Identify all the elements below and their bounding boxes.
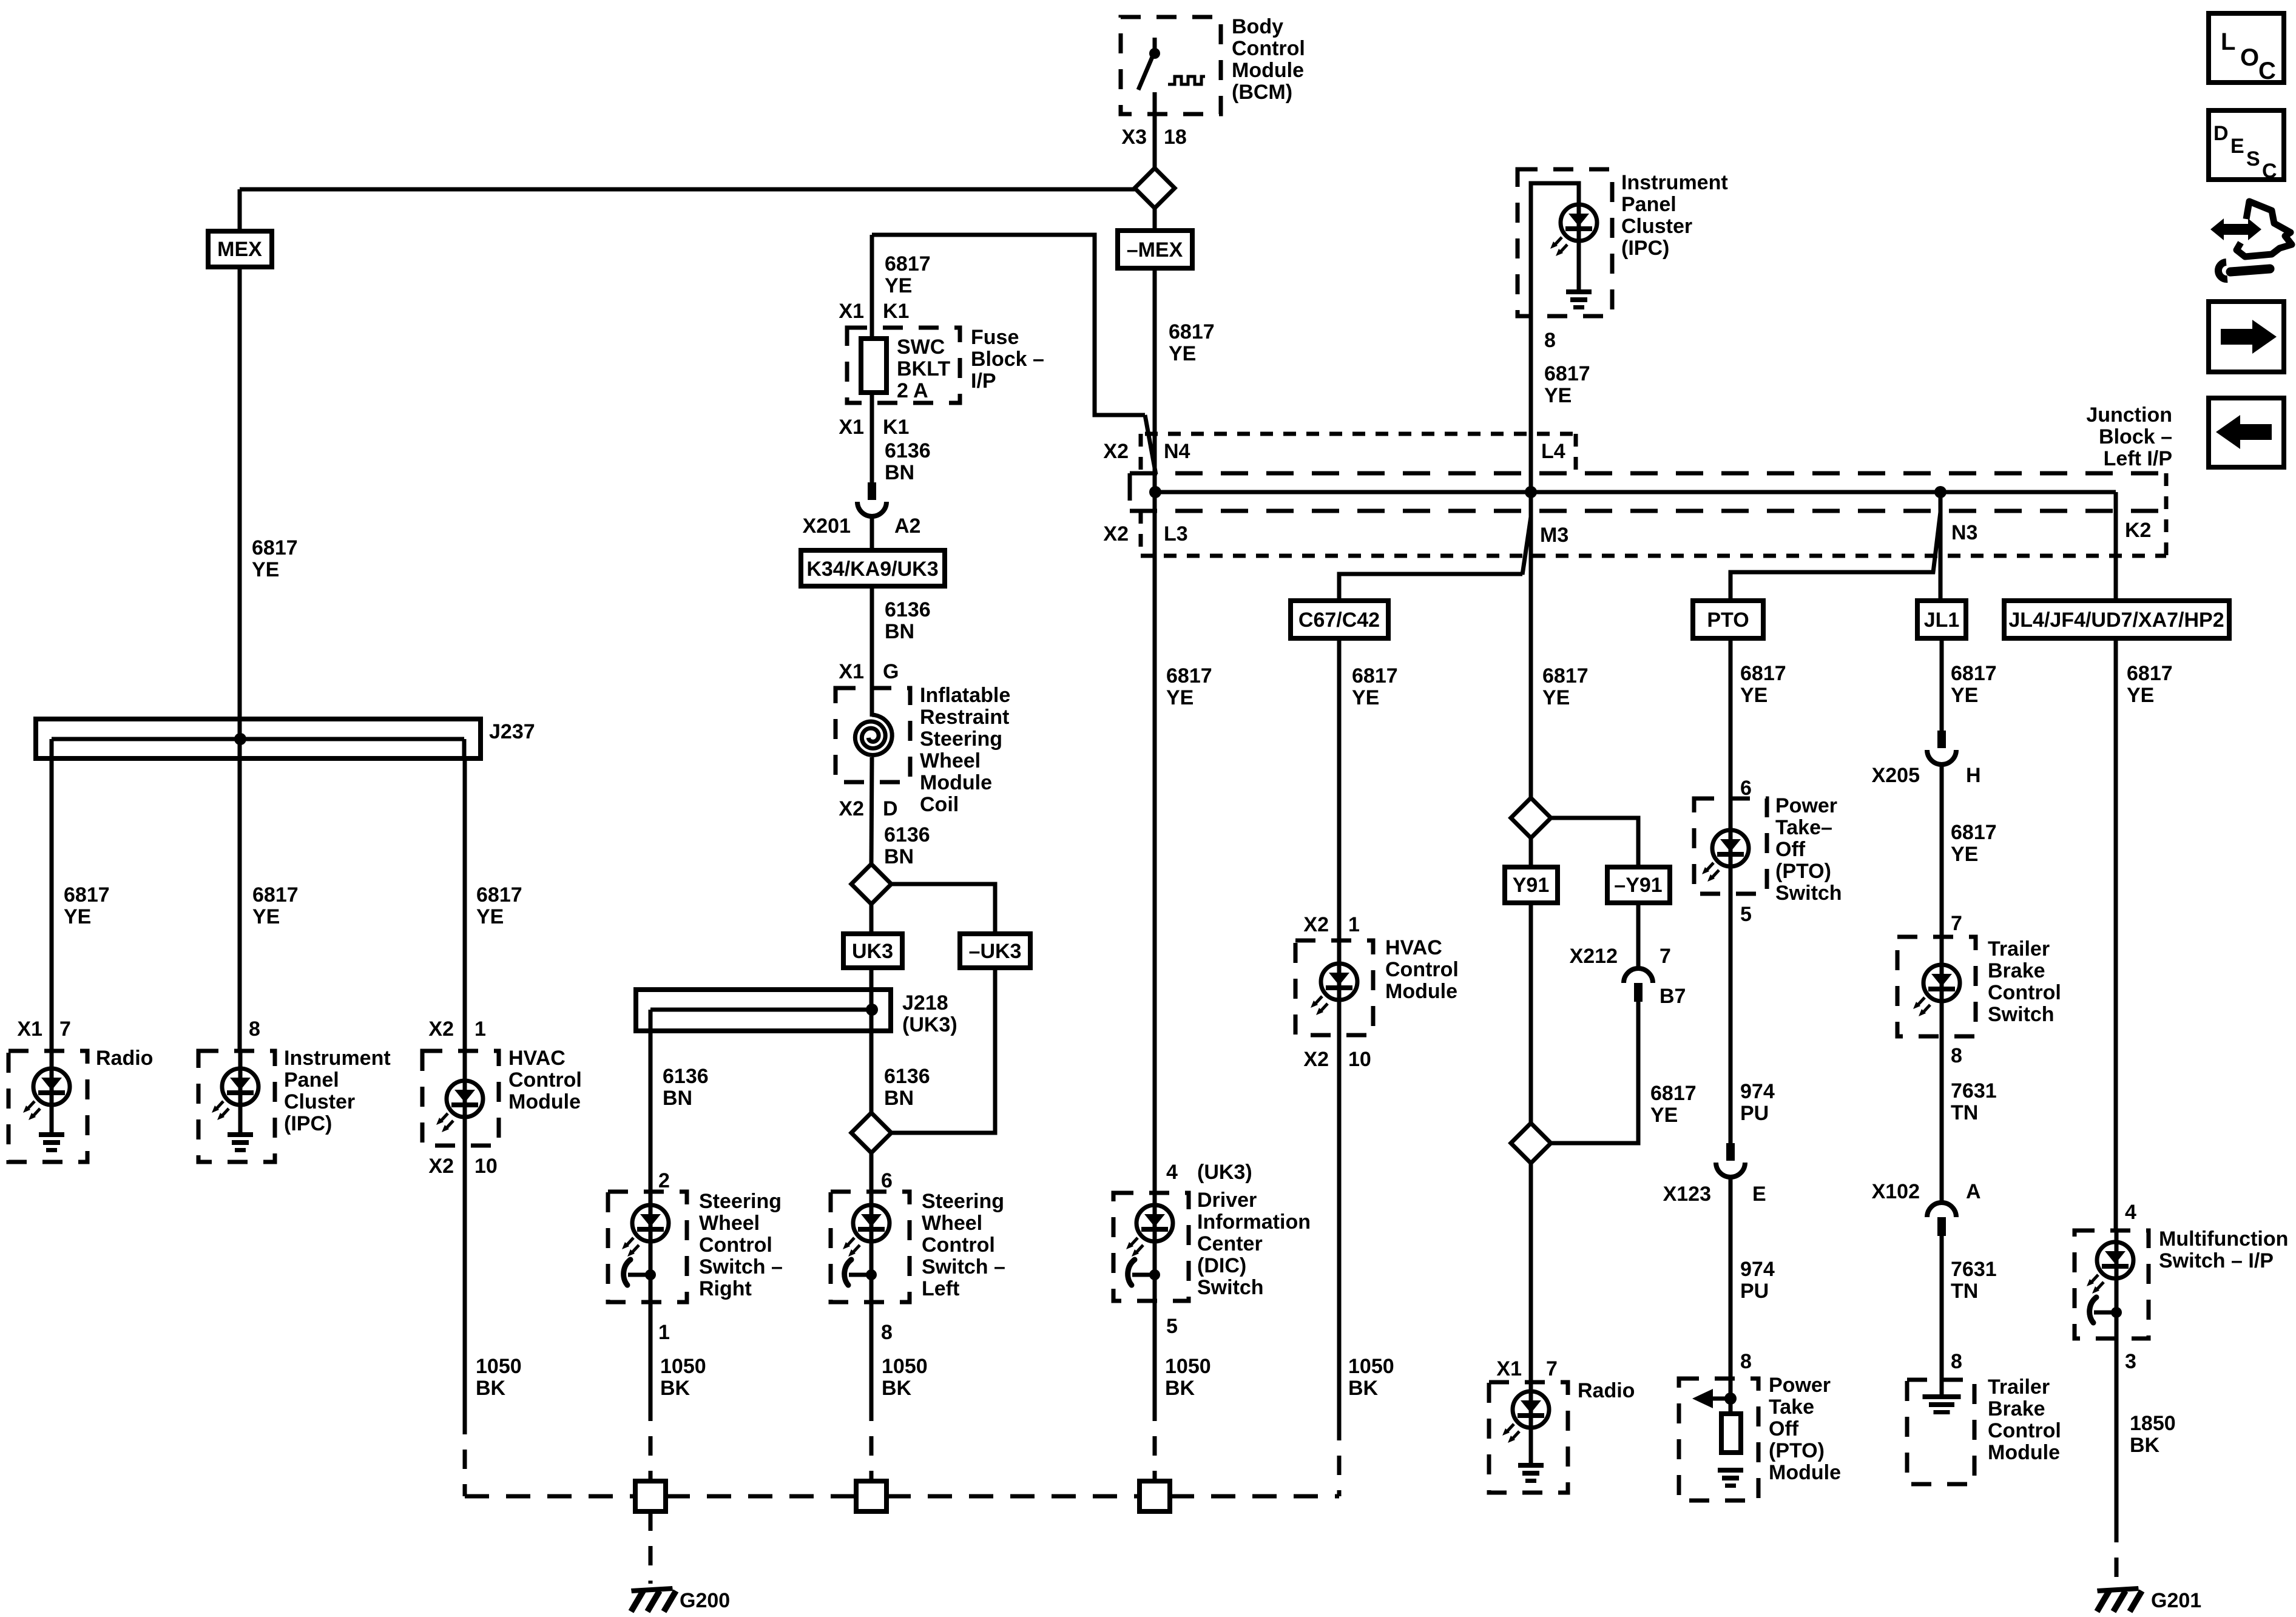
- svg-text:X212: X212: [1570, 945, 1618, 968]
- svg-text:1050: 1050: [1165, 1355, 1211, 1378]
- signal ground PTO module: [1718, 1468, 1743, 1488]
- svg-text:Information: Information: [1197, 1210, 1311, 1234]
- component box HVAC control module center dashed: [1295, 940, 1373, 1035]
- svg-text:N4: N4: [1164, 440, 1190, 463]
- svg-text:K1: K1: [883, 416, 909, 439]
- wire: Y91 diamond through Y91 tag to lower diamond: [1529, 838, 1533, 1123]
- svg-text:Take: Take: [1769, 1396, 1814, 1419]
- tag box -UK3: [960, 934, 1030, 968]
- svg-text:6817: 6817: [1951, 662, 1997, 685]
- svg-text:7: 7: [59, 1018, 71, 1041]
- svg-text:C: C: [2258, 58, 2276, 84]
- junction block X2 separator bottom row: [1139, 511, 1143, 556]
- splice J237 junction dot: [234, 733, 246, 745]
- svg-text:Switch –: Switch –: [699, 1255, 783, 1278]
- wire: X123 to PTO module: [1729, 1177, 1733, 1414]
- svg-text:–MEX: –MEX: [1127, 238, 1183, 262]
- svg-text:YE: YE: [1650, 1104, 1678, 1127]
- wire: dashed ground drop DIC: [1153, 1402, 1157, 1481]
- svg-text:B7: B7: [1660, 985, 1686, 1008]
- wire: diagonal entry into junction block pin N4: [1145, 415, 1156, 474]
- svg-text:10: 10: [1348, 1048, 1371, 1071]
- svg-text:Power: Power: [1775, 794, 1837, 817]
- tag box MEX: [208, 231, 272, 267]
- svg-text:(UK3): (UK3): [902, 1013, 957, 1036]
- svg-text:8: 8: [1740, 1350, 1752, 1373]
- svg-text:8: 8: [881, 1321, 893, 1344]
- svg-text:BN: BN: [885, 620, 914, 643]
- svg-text:YE: YE: [885, 274, 912, 297]
- svg-text:X2: X2: [1303, 1048, 1329, 1071]
- splice square on ground bus below DIC: [1140, 1481, 1170, 1511]
- svg-text:YE: YE: [1169, 342, 1196, 365]
- svg-text:UK3: UK3: [852, 940, 893, 963]
- wire: M3 exit diagonal to C67 feeder: [1339, 517, 1531, 601]
- svg-text:(UK3): (UK3): [1197, 1161, 1252, 1184]
- svg-text:974: 974: [1740, 1080, 1775, 1103]
- svg-text:YE: YE: [1166, 686, 1194, 709]
- diamond connector below BCM: [1135, 168, 1175, 208]
- svg-text:Power: Power: [1769, 1374, 1831, 1397]
- svg-text:(IPC): (IPC): [1621, 237, 1669, 260]
- component box Radio left dashed: [8, 1051, 87, 1162]
- svg-text:J237: J237: [489, 720, 535, 743]
- wire: MEX column down to J237 and Radio/IPC/HVAC bus: [238, 189, 242, 1051]
- wire: J237 middle output to IPC: [238, 1051, 243, 1133]
- tag box C67/C42: [1291, 601, 1388, 638]
- svg-text:Steering: Steering: [922, 1190, 1004, 1213]
- svg-text:YE: YE: [1951, 684, 1978, 707]
- svg-text:X2: X2: [839, 797, 864, 820]
- wire: JL4 column down through multifunction switch: [2115, 1230, 2119, 1523]
- wire: M3 column down to Y91 diamond: [1529, 492, 1533, 798]
- signal ground IPC left: [228, 1132, 253, 1152]
- svg-text:TN: TN: [1951, 1280, 1978, 1303]
- wire: dashed drop below G200 splice: [649, 1511, 653, 1584]
- wire: UK3 column diamond to SWCS-Left column bottom: [869, 904, 874, 1402]
- svg-text:YE: YE: [1544, 384, 1572, 407]
- svg-text:Fuse: Fuse: [971, 326, 1019, 349]
- svg-text:MEX: MEX: [217, 238, 262, 261]
- wire: fuse column down to X201: [870, 235, 874, 482]
- svg-text:Left I/P: Left I/P: [2104, 447, 2172, 470]
- svg-text:6: 6: [881, 1169, 893, 1192]
- svg-text:Instrument: Instrument: [284, 1047, 391, 1070]
- wire: bus right corner down to JL4 tag: [2114, 492, 2118, 1230]
- icon box left arrow: [2209, 398, 2284, 467]
- svg-text:2 A: 2 A: [897, 379, 928, 402]
- svg-text:6817: 6817: [1951, 821, 1997, 844]
- svg-text:D: D: [2213, 122, 2229, 145]
- svg-text:YE: YE: [252, 905, 280, 928]
- component box HVAC control module left dashed: [422, 1051, 499, 1146]
- splice J218 outer box: [636, 990, 891, 1031]
- junction dot N4/L3 column: [1149, 486, 1161, 498]
- wire: PTO column down to X123: [1729, 638, 1733, 1143]
- wire: N3 exit diagonal to PTO feeder: [1730, 512, 1940, 601]
- svg-text:Module: Module: [1232, 59, 1304, 82]
- svg-text:6: 6: [1740, 777, 1752, 800]
- svg-text:7631: 7631: [1951, 1079, 1997, 1102]
- svg-text:Off: Off: [1775, 838, 1806, 861]
- svg-text:Y91: Y91: [1513, 874, 1550, 897]
- svg-text:8: 8: [1951, 1044, 1962, 1067]
- wire: diamond to -MEX and down through junction block to DIC switch column: [1153, 208, 1157, 1402]
- svg-text:X1: X1: [839, 300, 864, 323]
- svg-text:Module: Module: [1769, 1461, 1841, 1484]
- svg-text:HVAC: HVAC: [508, 1047, 566, 1070]
- inline connector X205: [1927, 731, 1956, 765]
- switch lever SWCS Right: [624, 1260, 656, 1285]
- svg-text:PTO: PTO: [1707, 609, 1749, 632]
- junction dot N3 column: [1934, 486, 1947, 498]
- PTO module junction dot: [1724, 1393, 1737, 1405]
- svg-text:6817: 6817: [1166, 664, 1212, 687]
- svg-text:5: 5: [1166, 1315, 1178, 1338]
- svg-text:Control: Control: [922, 1234, 995, 1257]
- inline connector X102: [1927, 1203, 1956, 1236]
- svg-text:O: O: [2240, 44, 2259, 71]
- svg-text:I/P: I/P: [971, 370, 996, 393]
- svg-text:10: 10: [474, 1155, 498, 1178]
- LED Radio left: [23, 1068, 70, 1120]
- svg-text:3: 3: [2125, 1350, 2136, 1373]
- svg-text:6817: 6817: [1169, 320, 1215, 343]
- svg-text:1: 1: [474, 1018, 486, 1041]
- wire: junction block internal bus: [1155, 490, 2116, 495]
- svg-text:Switch – I/P: Switch – I/P: [2159, 1249, 2274, 1272]
- svg-text:Panel: Panel: [1621, 193, 1676, 216]
- wire: BCM pin 18 down to diamond: [1153, 114, 1157, 168]
- junction dot L4/M3 column: [1525, 486, 1537, 498]
- junction block top pin row fine dashed line: [1145, 432, 1578, 436]
- svg-text:A: A: [1966, 1180, 1981, 1203]
- svg-text:L4: L4: [1541, 440, 1565, 463]
- svg-text:Body: Body: [1232, 15, 1283, 38]
- svg-text:Junction: Junction: [2086, 403, 2172, 427]
- signal ground Radio left: [39, 1132, 64, 1152]
- component box PTO switch dashed: [1694, 798, 1767, 894]
- svg-text:BK: BK: [882, 1377, 912, 1400]
- wire: ground bus segment 2: [666, 1494, 856, 1499]
- svg-text:S: S: [2246, 147, 2260, 170]
- svg-text:8: 8: [1544, 329, 1556, 352]
- svg-text:(IPC): (IPC): [284, 1112, 332, 1135]
- svg-text:X2: X2: [1103, 440, 1129, 463]
- component box PTO module dashed: [1679, 1379, 1758, 1501]
- svg-text:X2: X2: [1103, 522, 1129, 545]
- svg-text:Coil: Coil: [920, 793, 959, 816]
- svg-text:X205: X205: [1872, 764, 1920, 787]
- BCM internal wire below switch: [1153, 92, 1157, 114]
- wire: J237 left output to Radio: [50, 758, 54, 1133]
- svg-text:SWC: SWC: [897, 336, 945, 359]
- BCM internal switch stub and dot: [1153, 38, 1157, 53]
- svg-text:1050: 1050: [1348, 1355, 1394, 1378]
- svg-text:1050: 1050: [660, 1355, 706, 1378]
- svg-text:BN: BN: [885, 461, 914, 484]
- svg-text:6817: 6817: [885, 252, 931, 275]
- LED multifunction switch: [2087, 1242, 2133, 1294]
- junction block right edge dashes: [2164, 473, 2169, 556]
- svg-text:C: C: [2262, 160, 2277, 183]
- svg-text:1050: 1050: [476, 1355, 522, 1378]
- splice J237 internal bus: [52, 737, 464, 741]
- wire: coil to diamond: [871, 757, 872, 864]
- svg-text:Instrument: Instrument: [1621, 171, 1728, 194]
- diamond connector above SWCS-Left: [851, 1113, 891, 1153]
- svg-text:Switch –: Switch –: [922, 1255, 1005, 1278]
- tag box UK3: [843, 934, 902, 968]
- splice square on ground bus below SWCS-Left: [856, 1481, 886, 1511]
- coil spiral symbol: [855, 715, 892, 755]
- svg-text:Control: Control: [1232, 37, 1305, 60]
- svg-text:Control: Control: [508, 1068, 582, 1092]
- svg-text:1: 1: [658, 1321, 670, 1344]
- svg-text:J218: J218: [902, 991, 948, 1014]
- svg-text:Switch: Switch: [1197, 1276, 1264, 1299]
- svg-text:X3: X3: [1121, 126, 1147, 149]
- svg-text:Radio: Radio: [1578, 1379, 1635, 1402]
- component box BCM dashed: [1121, 17, 1221, 114]
- component box SWCS Right dashed: [608, 1192, 687, 1302]
- wire: diamond right branch to -UK3: [891, 884, 995, 934]
- svg-text:Steering: Steering: [920, 727, 1002, 751]
- svg-text:PU: PU: [1740, 1280, 1769, 1303]
- svg-text:6817: 6817: [252, 883, 299, 906]
- LED IPC left: [212, 1068, 258, 1120]
- junction block left edge dashes: [1128, 473, 1132, 511]
- wire: X102 to trailer brake module: [1940, 1236, 1944, 1396]
- svg-text:L3: L3: [1164, 522, 1188, 545]
- chassis ground G201: [2097, 1586, 2142, 1612]
- svg-text:Radio: Radio: [96, 1047, 153, 1070]
- tag box Y91: [1505, 867, 1558, 903]
- svg-text:6136: 6136: [885, 439, 931, 462]
- signal ground trailer brake module: [1923, 1394, 1961, 1414]
- svg-text:BKLT: BKLT: [897, 357, 950, 380]
- splice J218 internal bus: [650, 1008, 872, 1012]
- svg-text:BN: BN: [884, 845, 914, 868]
- wire: dashed ground drop SWCS-Right: [649, 1402, 653, 1481]
- wire: dashed ground drop HVAC column: [463, 1415, 467, 1496]
- tag box JL1: [1917, 601, 1966, 638]
- PTO module resistor: [1721, 1414, 1741, 1453]
- svg-text:Wheel: Wheel: [699, 1212, 760, 1235]
- svg-text:4: 4: [2125, 1201, 2136, 1224]
- svg-text:BK: BK: [476, 1377, 506, 1400]
- svg-text:PU: PU: [1740, 1102, 1769, 1125]
- junction block X2 separator top row: [1139, 434, 1143, 473]
- svg-text:–UK3: –UK3: [969, 940, 1022, 963]
- svg-text:Wheel: Wheel: [922, 1212, 982, 1235]
- svg-text:D: D: [883, 797, 898, 820]
- svg-text:Switch: Switch: [1775, 882, 1842, 905]
- LED SWCS Left: [843, 1205, 890, 1257]
- svg-text:6817: 6817: [1740, 662, 1786, 685]
- switch lever multifunction switch: [2090, 1297, 2122, 1323]
- svg-text:G201: G201: [2151, 1589, 2201, 1612]
- chassis ground G200: [631, 1586, 676, 1612]
- svg-text:974: 974: [1740, 1258, 1775, 1281]
- component box SWCS Left dashed: [831, 1192, 910, 1302]
- LED PTO switch: [1702, 830, 1749, 882]
- svg-text:Control: Control: [699, 1234, 772, 1257]
- svg-text:X2: X2: [428, 1018, 454, 1041]
- junction block bottom pin row fine dashed line: [1141, 554, 2166, 558]
- wire: X205 to trailer brake switch and X102: [1940, 765, 1944, 1201]
- svg-text:Off: Off: [1769, 1417, 1799, 1440]
- LED HVAC left: [436, 1081, 483, 1132]
- splice J237 outer box: [36, 719, 481, 758]
- component box multifunction switch dashed: [2075, 1230, 2149, 1338]
- svg-text:(PTO): (PTO): [1769, 1439, 1825, 1462]
- wire: ground bus segment 4: [1170, 1494, 1339, 1499]
- svg-text:Driver: Driver: [1197, 1189, 1257, 1212]
- svg-text:(DIC): (DIC): [1197, 1254, 1246, 1277]
- wire: dashed ground drop C67 column: [1337, 1421, 1342, 1496]
- svg-text:1: 1: [1348, 913, 1360, 936]
- switch lever SWCS Left: [845, 1260, 877, 1285]
- BCM internal switch lever: [1138, 57, 1152, 90]
- LED inside IPC top: [1550, 204, 1597, 256]
- svg-text:X1: X1: [1496, 1357, 1522, 1380]
- component box inflatable restraint coil dashed: [836, 688, 910, 782]
- svg-text:7: 7: [1546, 1357, 1558, 1380]
- svg-text:Brake: Brake: [1988, 959, 2045, 982]
- svg-text:6817: 6817: [476, 883, 522, 906]
- svg-text:6817: 6817: [1352, 664, 1398, 687]
- svg-text:BN: BN: [663, 1087, 692, 1110]
- svg-text:Module: Module: [1385, 980, 1457, 1003]
- svg-text:HVAC: HVAC: [1385, 936, 1442, 959]
- svg-text:Inflatable: Inflatable: [920, 684, 1010, 707]
- svg-text:Block –: Block –: [971, 348, 1044, 371]
- wire: -UK3 down and left to lower diamond: [891, 968, 995, 1133]
- svg-text:6136: 6136: [884, 823, 930, 846]
- svg-text:6817: 6817: [2127, 662, 2173, 685]
- svg-text:1850: 1850: [2130, 1412, 2176, 1435]
- svg-text:E: E: [1752, 1183, 1766, 1206]
- svg-text:X102: X102: [1872, 1180, 1920, 1203]
- svg-text:K2: K2: [2125, 519, 2151, 542]
- svg-text:Switch: Switch: [1988, 1003, 2055, 1026]
- svg-text:G200: G200: [680, 1589, 730, 1612]
- svg-text:Restraint: Restraint: [920, 706, 1009, 729]
- svg-text:JL1: JL1: [1924, 609, 1960, 632]
- svg-text:8: 8: [1951, 1350, 1962, 1373]
- junction block lower long dashed line: [1130, 509, 2166, 513]
- svg-text:6817: 6817: [64, 883, 110, 906]
- svg-text:Cluster: Cluster: [1621, 215, 1692, 238]
- svg-text:Brake: Brake: [1988, 1397, 2045, 1420]
- svg-text:(PTO): (PTO): [1775, 860, 1831, 883]
- component box IPC left dashed: [198, 1051, 275, 1162]
- svg-text:YE: YE: [1352, 686, 1379, 709]
- BCM internal pulse waveform symbol: [1168, 76, 1205, 84]
- svg-text:Left: Left: [922, 1277, 959, 1300]
- wire: top horizontal MEX to BCM diamond: [240, 187, 1135, 192]
- svg-text:Module: Module: [1988, 1441, 2060, 1464]
- diamond connector Y91 lower: [1511, 1123, 1551, 1163]
- wire: ground bus segment 3: [886, 1494, 1140, 1499]
- wire: J237 right output to HVAC control module: [463, 758, 467, 1415]
- svg-text:YE: YE: [476, 905, 504, 928]
- splice J237 right stub: [462, 739, 467, 758]
- tag box -Y91: [1607, 867, 1670, 903]
- wire: IPC top internal loop: [1531, 183, 1579, 316]
- svg-text:X123: X123: [1663, 1183, 1711, 1206]
- component box Radio bottom dashed: [1489, 1382, 1568, 1493]
- svg-text:X201: X201: [803, 515, 851, 538]
- svg-text:X1: X1: [839, 416, 864, 439]
- svg-text:6817: 6817: [1542, 664, 1589, 687]
- svg-text:BK: BK: [1165, 1377, 1195, 1400]
- svg-text:Trailer: Trailer: [1988, 937, 2050, 960]
- diamond connector below coil: [851, 864, 891, 904]
- component box trailer brake control switch dashed: [1897, 937, 1976, 1036]
- svg-text:YE: YE: [64, 905, 91, 928]
- svg-text:Module: Module: [508, 1090, 581, 1113]
- svg-text:6817: 6817: [252, 536, 298, 559]
- svg-text:6817: 6817: [1650, 1082, 1697, 1105]
- svg-text:G: G: [883, 660, 899, 683]
- component box trailer brake control module dashed: [1907, 1380, 1974, 1484]
- icon box right arrow: [2209, 302, 2284, 372]
- LED Radio bottom: [1502, 1391, 1549, 1443]
- svg-text:7: 7: [1951, 912, 1962, 935]
- svg-text:BK: BK: [2130, 1434, 2160, 1457]
- tag box -MEX: [1118, 231, 1192, 268]
- PTO module arrow to left: [1703, 1397, 1730, 1401]
- svg-text:Wheel: Wheel: [920, 749, 981, 772]
- svg-text:2: 2: [658, 1169, 670, 1192]
- icon box LOC: [2209, 13, 2284, 83]
- svg-text:18: 18: [1164, 126, 1187, 149]
- svg-text:BK: BK: [660, 1377, 690, 1400]
- LED HVAC center: [1311, 964, 1357, 1015]
- svg-text:Block –: Block –: [2099, 425, 2172, 448]
- tag box K34/KA9/UK3: [801, 550, 945, 586]
- svg-text:Cluster: Cluster: [284, 1090, 355, 1113]
- component box Instrument Panel Cluster top dashed: [1518, 169, 1612, 316]
- svg-text:YE: YE: [2127, 684, 2154, 707]
- svg-text:7: 7: [1660, 945, 1671, 968]
- wire: X201 to coil: [870, 516, 874, 717]
- junction block upper long dashed line: [1130, 471, 2166, 476]
- inline connector X123: [1716, 1143, 1745, 1177]
- wire: C67 column down to ground bus corner: [1337, 638, 1342, 1421]
- LED trailer brake switch: [1913, 965, 1960, 1016]
- switch lever DIC switch: [1128, 1260, 1160, 1285]
- wire: Y91 diamond right branch to -Y91: [1551, 818, 1638, 867]
- svg-text:X1: X1: [839, 660, 864, 683]
- svg-text:BN: BN: [884, 1087, 914, 1110]
- svg-text:Right: Right: [699, 1277, 752, 1300]
- svg-text:M3: M3: [1540, 524, 1568, 547]
- svg-text:N3: N3: [1951, 521, 1977, 544]
- svg-text:Steering: Steering: [699, 1190, 782, 1213]
- fuse SWC BKLT element: [861, 339, 886, 393]
- svg-text:5: 5: [1740, 903, 1752, 926]
- LED DIC switch: [1126, 1205, 1173, 1257]
- diamond connector Y91 upper: [1511, 798, 1551, 838]
- signal ground inside IPC top: [1566, 289, 1592, 309]
- wire: -Y91 to X212: [1636, 903, 1641, 967]
- svg-text:JL4/JF4/UD7/XA7/HP2: JL4/JF4/UD7/XA7/HP2: [2008, 609, 2224, 632]
- svg-text:BK: BK: [1348, 1377, 1379, 1400]
- signal ground Radio bottom: [1518, 1463, 1544, 1483]
